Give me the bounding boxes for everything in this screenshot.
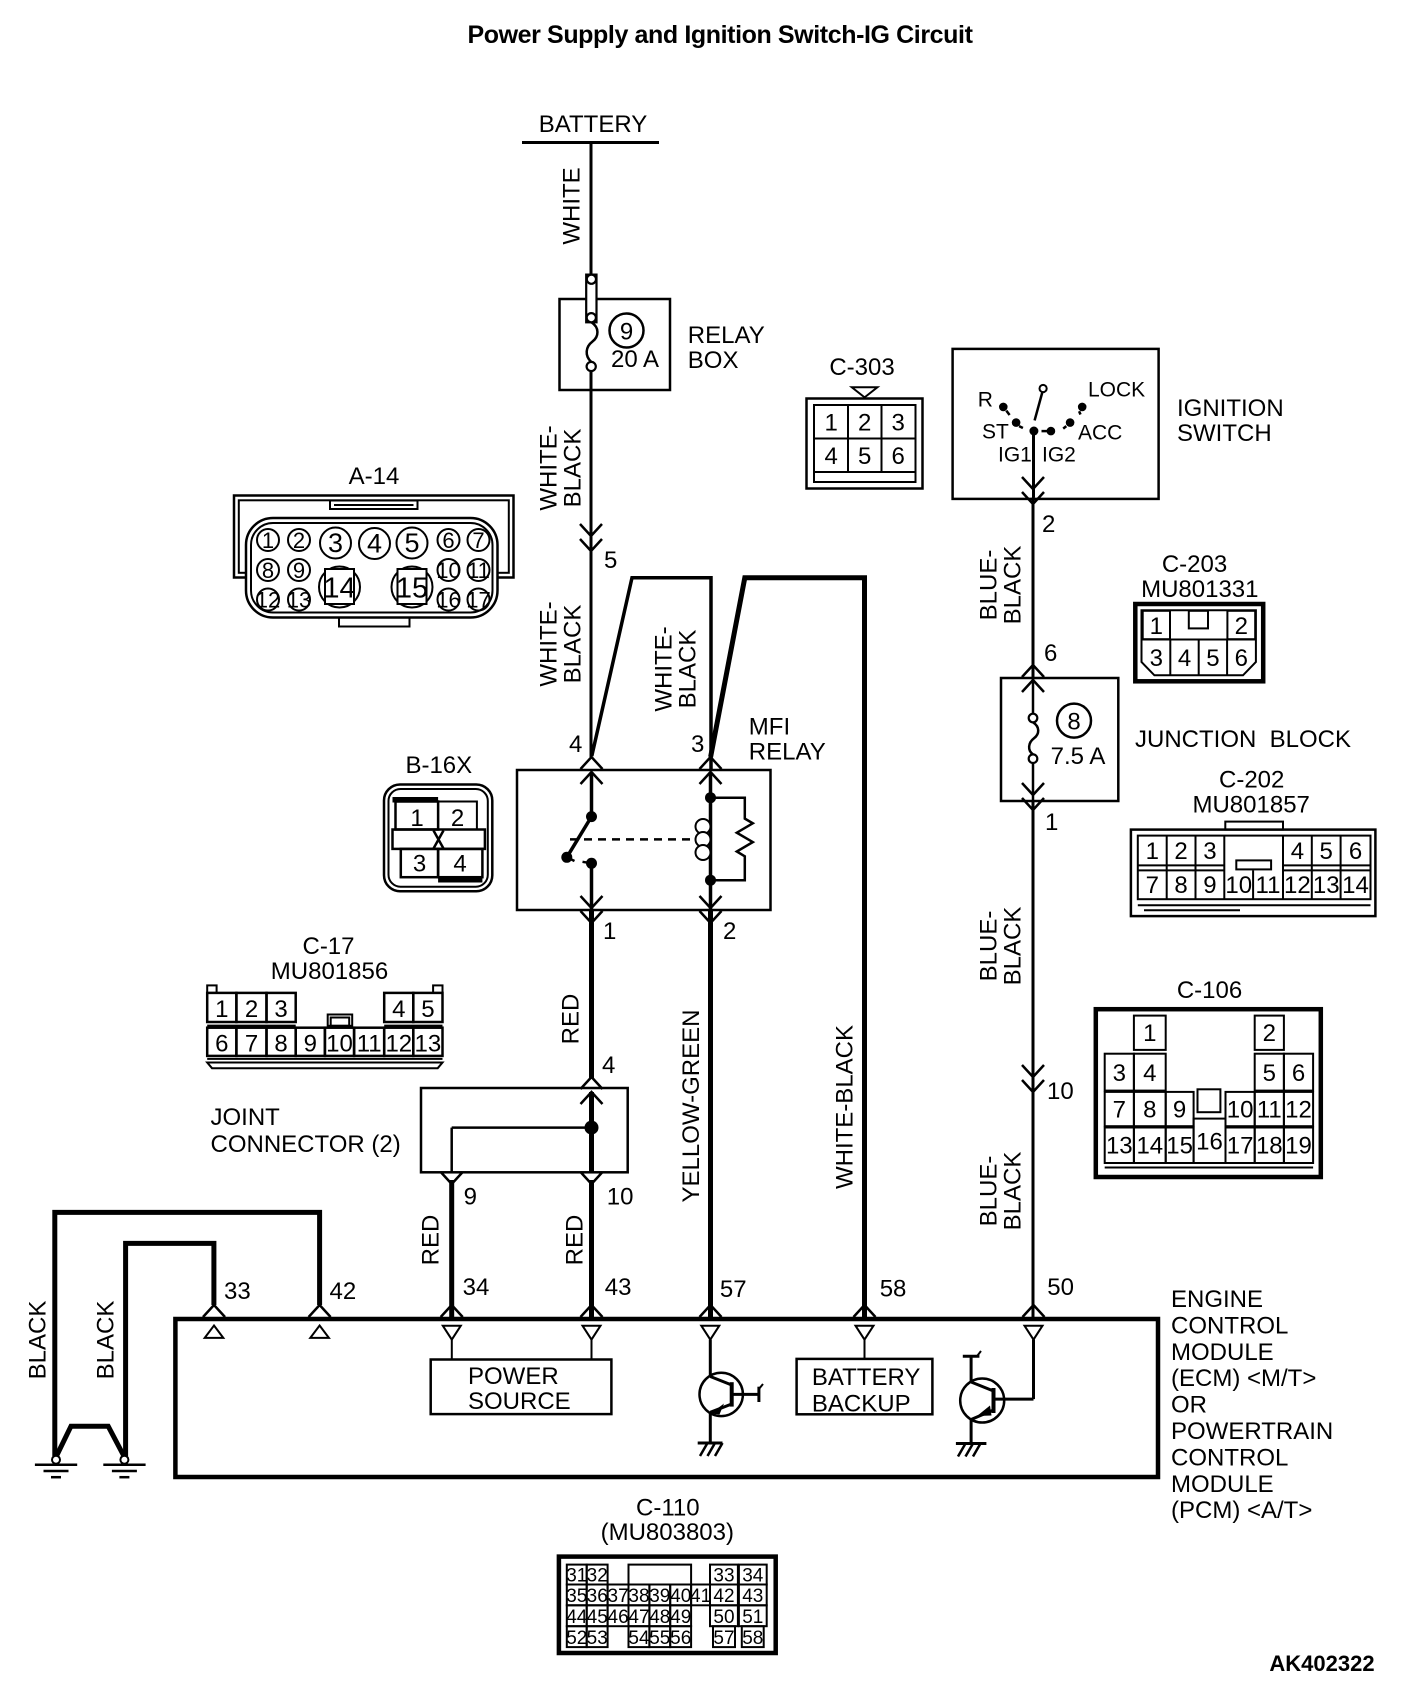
svg-text:51: 51 bbox=[742, 1607, 763, 1628]
svg-text:1: 1 bbox=[1143, 1020, 1156, 1047]
svg-text:5: 5 bbox=[604, 547, 617, 574]
svg-text:17: 17 bbox=[466, 588, 490, 613]
label WHITE-BLACK upper bbox=[536, 425, 587, 510]
svg-text:57: 57 bbox=[713, 1628, 734, 1649]
svg-text:BLACK: BLACK bbox=[1000, 907, 1027, 986]
ignition switch bbox=[953, 349, 1284, 499]
svg-text:BACKUP: BACKUP bbox=[812, 1391, 911, 1418]
svg-text:40: 40 bbox=[670, 1586, 691, 1607]
svg-text:11: 11 bbox=[357, 1031, 382, 1058]
svg-text:6: 6 bbox=[215, 1031, 228, 1058]
wire ignition switch to junction block (BLUE-BLACK) bbox=[1032, 498, 1035, 679]
svg-text:JOINT: JOINT bbox=[211, 1104, 281, 1131]
svg-text:2: 2 bbox=[451, 805, 464, 832]
label BLUE-BLACK upper bbox=[976, 546, 1027, 625]
svg-text:2: 2 bbox=[1042, 511, 1055, 538]
svg-text:34: 34 bbox=[742, 1566, 764, 1587]
svg-text:1: 1 bbox=[215, 996, 228, 1023]
svg-text:3: 3 bbox=[413, 851, 426, 878]
ECM label text bbox=[1171, 1286, 1333, 1524]
connector C-202 bbox=[1131, 767, 1376, 917]
svg-text:IGNITION: IGNITION bbox=[1177, 395, 1284, 422]
svg-text:C-106: C-106 bbox=[1177, 977, 1242, 1004]
wire joint pin 10 to ECM 43 (RED) bbox=[589, 1180, 594, 1317]
battery bbox=[522, 111, 659, 143]
relay resistor bbox=[711, 798, 753, 881]
svg-text:9: 9 bbox=[1173, 1097, 1186, 1124]
svg-text:13: 13 bbox=[1313, 872, 1340, 899]
pin triangle 57 (down) bbox=[701, 1326, 719, 1340]
wire relay pin 1 to joint connector (RED) bbox=[589, 910, 594, 1078]
svg-text:7: 7 bbox=[1113, 1097, 1126, 1124]
svg-text:6: 6 bbox=[1235, 645, 1248, 672]
svg-text:14: 14 bbox=[1136, 1133, 1163, 1160]
wire bus pin4-pin3 (horizontal + diagonal) bbox=[592, 578, 711, 770]
svg-text:43: 43 bbox=[605, 1274, 632, 1301]
svg-text:3: 3 bbox=[328, 528, 343, 558]
ECM pin chevron 58 bbox=[854, 1305, 876, 1317]
svg-text:11: 11 bbox=[467, 558, 490, 583]
svg-text:BATTERY: BATTERY bbox=[539, 111, 647, 138]
label BLUE-BLACK middle bbox=[976, 907, 1027, 986]
svg-text:4: 4 bbox=[453, 851, 466, 878]
svg-text:33: 33 bbox=[713, 1566, 734, 1587]
svg-text:42: 42 bbox=[330, 1278, 357, 1305]
wire pin3 to ECM 58 (WHITE-BLACK thick) bbox=[711, 578, 865, 1317]
svg-text:16: 16 bbox=[1196, 1129, 1223, 1156]
svg-text:6: 6 bbox=[442, 528, 454, 553]
svg-text:32: 32 bbox=[587, 1566, 608, 1587]
arrow chevron down at joint pin 9 bbox=[441, 1172, 463, 1184]
svg-text:10: 10 bbox=[436, 558, 460, 583]
arrow chevrons down mid-wire bbox=[580, 524, 602, 551]
svg-text:49: 49 bbox=[670, 1607, 691, 1628]
svg-text:14: 14 bbox=[1342, 872, 1369, 899]
svg-text:POWERTRAIN: POWERTRAIN bbox=[1171, 1418, 1333, 1445]
ECM box bbox=[175, 1319, 1158, 1477]
connector C-106 bbox=[1096, 977, 1321, 1177]
svg-text:LOCK: LOCK bbox=[1088, 379, 1145, 402]
svg-text:4: 4 bbox=[569, 731, 582, 758]
svg-text:5: 5 bbox=[421, 996, 434, 1023]
wire relay pin 2 to ECM 57 (YELLOW-GREEN) bbox=[708, 910, 713, 1317]
connector C-17 bbox=[207, 933, 442, 1068]
svg-text:1: 1 bbox=[825, 410, 838, 437]
svg-text:MODULE: MODULE bbox=[1171, 1471, 1274, 1498]
svg-text:43: 43 bbox=[742, 1586, 763, 1607]
ECM pin chevron 42 bbox=[309, 1305, 331, 1317]
connector C-110 bbox=[559, 1495, 776, 1654]
svg-text:16: 16 bbox=[436, 588, 460, 613]
svg-text:8: 8 bbox=[1067, 709, 1080, 736]
ground wire ECM 33 (BLACK) bbox=[126, 1243, 214, 1456]
svg-text:10: 10 bbox=[326, 1031, 353, 1058]
svg-text:YELLOW-GREEN: YELLOW-GREEN bbox=[678, 1010, 705, 1203]
wire junction block to ECM 50 (BLUE-BLACK) bbox=[1032, 801, 1035, 1317]
arrow chevrons down at switch exit bbox=[1022, 477, 1044, 504]
svg-text:5: 5 bbox=[1263, 1060, 1276, 1087]
svg-text:IG1: IG1 bbox=[998, 444, 1032, 467]
svg-text:55: 55 bbox=[649, 1628, 670, 1649]
svg-text:9: 9 bbox=[464, 1184, 477, 1211]
svg-text:11: 11 bbox=[1257, 1097, 1282, 1124]
svg-text:MFI: MFI bbox=[749, 714, 790, 741]
wire joint pin 9 to ECM 34 (RED) bbox=[449, 1180, 454, 1317]
relay coil bbox=[696, 772, 717, 910]
svg-text:WHITE-: WHITE- bbox=[536, 601, 563, 686]
transistor Q2 (pin 50) bbox=[960, 1340, 1033, 1444]
junction block bbox=[1001, 678, 1351, 801]
wire battery to relay box (WHITE) bbox=[590, 144, 593, 275]
MFI relay bbox=[517, 714, 826, 911]
svg-text:7.5 A: 7.5 A bbox=[1051, 743, 1106, 770]
ground hatched Q2 bbox=[956, 1444, 987, 1457]
svg-text:AK402322: AK402322 bbox=[1269, 1651, 1374, 1676]
svg-text:2: 2 bbox=[858, 410, 871, 437]
svg-text:SOURCE: SOURCE bbox=[468, 1388, 571, 1415]
svg-text:2: 2 bbox=[1235, 613, 1248, 640]
svg-text:13: 13 bbox=[415, 1031, 442, 1058]
connector A-14 bbox=[234, 463, 514, 627]
svg-text:CONNECTOR (2): CONNECTOR (2) bbox=[211, 1131, 401, 1158]
svg-text:8: 8 bbox=[262, 558, 274, 583]
svg-text:57: 57 bbox=[720, 1276, 747, 1303]
svg-text:8: 8 bbox=[1143, 1097, 1156, 1124]
svg-text:1: 1 bbox=[1045, 809, 1058, 836]
svg-text:17: 17 bbox=[1227, 1133, 1254, 1160]
svg-text:5: 5 bbox=[1206, 645, 1219, 672]
svg-text:JUNCTION BLOCK: JUNCTION BLOCK bbox=[1135, 726, 1351, 753]
svg-text:9: 9 bbox=[1203, 872, 1216, 899]
fuse 8 7.5A bbox=[1029, 678, 1106, 801]
svg-text:BLACK: BLACK bbox=[25, 1301, 52, 1380]
svg-text:13: 13 bbox=[287, 588, 311, 613]
svg-text:19: 19 bbox=[1285, 1133, 1312, 1160]
arrow chevrons down at relay pin 2 bbox=[700, 896, 722, 923]
svg-text:3: 3 bbox=[274, 996, 287, 1023]
svg-text:RED: RED bbox=[558, 994, 585, 1045]
relay box bbox=[560, 299, 765, 390]
svg-text:5: 5 bbox=[404, 528, 419, 558]
battery backup block bbox=[797, 1340, 933, 1418]
svg-text:18: 18 bbox=[1256, 1133, 1283, 1160]
pin triangle 50 (down) bbox=[1025, 1326, 1043, 1340]
svg-text:Power Supply and Ignition Swit: Power Supply and Ignition Switch-IG Circ… bbox=[467, 21, 973, 49]
arrow chevron down at joint pin 10 bbox=[581, 1172, 603, 1184]
relay switch contact bbox=[561, 772, 597, 910]
relay operating link (dashed) bbox=[570, 838, 694, 841]
svg-text:(ECM) <M/T>: (ECM) <M/T> bbox=[1171, 1365, 1316, 1392]
svg-text:6: 6 bbox=[892, 443, 905, 470]
svg-text:BLACK: BLACK bbox=[675, 630, 702, 709]
transistor Q1 (pin 57) bbox=[700, 1340, 764, 1443]
svg-text:1: 1 bbox=[1150, 613, 1163, 640]
svg-text:58: 58 bbox=[880, 1276, 907, 1303]
svg-text:2: 2 bbox=[1263, 1020, 1276, 1047]
svg-text:9: 9 bbox=[293, 558, 305, 583]
svg-text:45: 45 bbox=[587, 1607, 608, 1628]
svg-text:8: 8 bbox=[274, 1031, 287, 1058]
svg-text:3: 3 bbox=[1113, 1060, 1126, 1087]
svg-text:48: 48 bbox=[649, 1607, 670, 1628]
svg-text:BLUE-: BLUE- bbox=[976, 911, 1003, 982]
svg-text:BLACK: BLACK bbox=[560, 605, 587, 684]
svg-text:3: 3 bbox=[691, 731, 704, 758]
svg-text:CONTROL: CONTROL bbox=[1171, 1312, 1288, 1339]
svg-text:4: 4 bbox=[392, 996, 405, 1023]
connector C-303 bbox=[807, 354, 923, 489]
svg-text:8: 8 bbox=[1174, 872, 1187, 899]
svg-text:15: 15 bbox=[1166, 1133, 1193, 1160]
svg-text:9: 9 bbox=[620, 319, 633, 346]
svg-text:A-14: A-14 bbox=[349, 463, 400, 490]
svg-text:R: R bbox=[978, 389, 993, 412]
svg-text:20 A: 20 A bbox=[611, 346, 659, 373]
svg-text:39: 39 bbox=[649, 1586, 670, 1607]
svg-text:31: 31 bbox=[566, 1566, 587, 1587]
svg-text:BLACK: BLACK bbox=[93, 1301, 120, 1380]
svg-text:RED: RED bbox=[562, 1215, 589, 1266]
svg-text:RELAY: RELAY bbox=[749, 739, 826, 766]
svg-text:50: 50 bbox=[713, 1607, 734, 1628]
svg-text:7: 7 bbox=[1146, 872, 1159, 899]
svg-text:OR: OR bbox=[1171, 1392, 1207, 1419]
svg-text:MU801856: MU801856 bbox=[271, 958, 388, 985]
svg-text:4: 4 bbox=[367, 529, 382, 559]
svg-text:7: 7 bbox=[245, 1031, 258, 1058]
svg-text:BLUE-: BLUE- bbox=[976, 1156, 1003, 1227]
svg-text:ACC: ACC bbox=[1078, 422, 1122, 445]
svg-text:56: 56 bbox=[670, 1628, 691, 1649]
svg-text:47: 47 bbox=[628, 1607, 649, 1628]
svg-text:6: 6 bbox=[1349, 838, 1362, 865]
label BLUE-BLACK lower bbox=[976, 1152, 1027, 1231]
svg-text:12: 12 bbox=[1285, 1097, 1312, 1124]
svg-text:10: 10 bbox=[1225, 872, 1252, 899]
pin triangle 42 (up) bbox=[310, 1326, 329, 1338]
svg-text:9: 9 bbox=[304, 1031, 317, 1058]
svg-text:2: 2 bbox=[293, 528, 305, 553]
connector B-16X bbox=[384, 752, 492, 891]
svg-text:RELAY: RELAY bbox=[688, 322, 765, 349]
svg-text:C-202: C-202 bbox=[1219, 767, 1284, 794]
svg-text:MU801857: MU801857 bbox=[1192, 792, 1309, 819]
svg-text:C-17: C-17 bbox=[302, 933, 354, 960]
svg-text:10: 10 bbox=[607, 1184, 634, 1211]
svg-text:46: 46 bbox=[608, 1607, 629, 1628]
arrow chevrons up at junction block entry bbox=[1022, 665, 1044, 692]
svg-text:7: 7 bbox=[472, 528, 484, 553]
ECM pin chevron 50 bbox=[1023, 1305, 1045, 1317]
ECM pin chevron 33 bbox=[203, 1305, 225, 1317]
ECM pin chevron 34 bbox=[441, 1305, 463, 1317]
svg-text:B-16X: B-16X bbox=[405, 752, 472, 779]
svg-text:WHITE-: WHITE- bbox=[651, 626, 678, 711]
svg-text:36: 36 bbox=[587, 1586, 608, 1607]
svg-text:WHITE-BLACK: WHITE-BLACK bbox=[832, 1025, 859, 1189]
svg-text:4: 4 bbox=[825, 443, 838, 470]
joint connector (2) bbox=[211, 1088, 628, 1172]
arrow chevrons down at relay pin 1 bbox=[581, 896, 603, 923]
arrow chevrons up at relay pin 3 bbox=[700, 757, 722, 784]
ECM pin chevron 57 bbox=[700, 1305, 722, 1317]
svg-text:15: 15 bbox=[396, 573, 428, 605]
svg-text:6: 6 bbox=[1044, 640, 1057, 667]
svg-text:BLUE-: BLUE- bbox=[976, 550, 1003, 621]
svg-text:C-203: C-203 bbox=[1162, 551, 1227, 578]
pin triangle 34 (down) bbox=[443, 1326, 461, 1340]
svg-text:4: 4 bbox=[602, 1052, 615, 1079]
svg-text:(MU803803): (MU803803) bbox=[601, 1519, 734, 1546]
svg-text:BLACK: BLACK bbox=[560, 429, 587, 508]
ground hatched Q1 bbox=[698, 1443, 723, 1456]
svg-text:1: 1 bbox=[603, 918, 616, 945]
svg-text:WHITE: WHITE bbox=[559, 167, 586, 244]
svg-text:RED: RED bbox=[418, 1215, 445, 1266]
svg-text:ST: ST bbox=[982, 421, 1009, 444]
svg-text:44: 44 bbox=[566, 1607, 588, 1628]
fuse 9 20A (fusible link) bbox=[586, 275, 659, 373]
power source block bbox=[431, 1340, 612, 1415]
svg-text:12: 12 bbox=[385, 1031, 412, 1058]
connector C-203 bbox=[1135, 551, 1263, 681]
svg-text:2: 2 bbox=[245, 996, 258, 1023]
svg-text:35: 35 bbox=[566, 1586, 587, 1607]
label WHITE-BLACK lower bbox=[536, 601, 587, 686]
svg-text:38: 38 bbox=[628, 1586, 649, 1607]
arrow chevrons down at junction block exit bbox=[1022, 783, 1044, 810]
svg-text:ENGINE: ENGINE bbox=[1171, 1286, 1263, 1313]
svg-text:41: 41 bbox=[690, 1586, 711, 1607]
arrow chevrons down mid-wire at C-106 pin 10 bbox=[1022, 1065, 1044, 1092]
svg-text:42: 42 bbox=[713, 1586, 734, 1607]
svg-text:4: 4 bbox=[1178, 645, 1191, 672]
svg-text:1: 1 bbox=[1146, 838, 1159, 865]
svg-text:10: 10 bbox=[1047, 1078, 1074, 1105]
svg-text:50: 50 bbox=[1047, 1274, 1074, 1301]
svg-text:3: 3 bbox=[1150, 645, 1163, 672]
svg-text:POWER: POWER bbox=[468, 1363, 559, 1390]
ground wire ECM 42 (BLACK) bbox=[55, 1212, 320, 1456]
svg-text:11: 11 bbox=[1256, 872, 1281, 899]
arrow chevrons up at relay pin 4 bbox=[581, 757, 603, 784]
svg-text:BLACK: BLACK bbox=[1000, 1152, 1027, 1231]
svg-text:5: 5 bbox=[858, 443, 871, 470]
pin triangle 33 (up) bbox=[205, 1326, 224, 1338]
svg-text:C-110: C-110 bbox=[636, 1495, 700, 1522]
svg-text:52: 52 bbox=[566, 1628, 587, 1649]
pin triangle 43 (down) bbox=[583, 1326, 601, 1340]
svg-text:14: 14 bbox=[323, 573, 355, 605]
ground symbol right bbox=[103, 1456, 145, 1478]
svg-text:12: 12 bbox=[1284, 872, 1311, 899]
svg-text:4: 4 bbox=[1291, 838, 1304, 865]
svg-text:BLACK: BLACK bbox=[1000, 546, 1027, 625]
svg-text:(PCM) <A/T>: (PCM) <A/T> bbox=[1171, 1497, 1312, 1524]
svg-text:3: 3 bbox=[892, 410, 905, 437]
svg-text:54: 54 bbox=[628, 1628, 650, 1649]
svg-text:MU801331: MU801331 bbox=[1141, 576, 1258, 603]
svg-text:5: 5 bbox=[1320, 838, 1333, 865]
svg-text:BOX: BOX bbox=[688, 347, 739, 374]
svg-text:4: 4 bbox=[1143, 1060, 1156, 1087]
svg-text:10: 10 bbox=[1227, 1097, 1254, 1124]
svg-text:34: 34 bbox=[463, 1274, 490, 1301]
arrow chevrons up at joint connector entry bbox=[581, 1077, 603, 1104]
ECM pin chevron 43 bbox=[581, 1305, 603, 1317]
svg-text:BATTERY: BATTERY bbox=[812, 1364, 920, 1391]
svg-text:MODULE: MODULE bbox=[1171, 1339, 1274, 1366]
svg-text:58: 58 bbox=[742, 1628, 763, 1649]
svg-text:C-303: C-303 bbox=[829, 354, 894, 381]
svg-text:13: 13 bbox=[1106, 1133, 1133, 1160]
svg-text:3: 3 bbox=[1203, 838, 1216, 865]
svg-text:2: 2 bbox=[1174, 838, 1187, 865]
svg-text:WHITE-: WHITE- bbox=[536, 425, 563, 510]
ground symbol left bbox=[35, 1456, 77, 1478]
svg-text:12: 12 bbox=[256, 588, 280, 613]
svg-text:37: 37 bbox=[608, 1586, 629, 1607]
label WHITE-BLACK middle bbox=[651, 626, 702, 711]
svg-text:33: 33 bbox=[224, 1278, 251, 1305]
svg-text:2: 2 bbox=[723, 918, 736, 945]
wire relay box to MFI relay pin 4 (WHITE-BLACK) bbox=[590, 371, 593, 757]
svg-text:CONTROL: CONTROL bbox=[1171, 1444, 1288, 1471]
svg-text:6: 6 bbox=[1292, 1060, 1305, 1087]
svg-text:IG2: IG2 bbox=[1042, 444, 1076, 467]
ground tie bar bbox=[56, 1426, 124, 1457]
svg-text:SWITCH: SWITCH bbox=[1177, 420, 1272, 447]
svg-text:1: 1 bbox=[410, 805, 423, 832]
svg-text:1: 1 bbox=[262, 528, 274, 553]
svg-text:53: 53 bbox=[587, 1628, 608, 1649]
pin triangle 58 (down) bbox=[856, 1326, 874, 1340]
